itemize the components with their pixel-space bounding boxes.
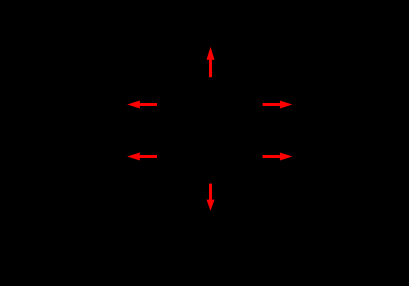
arrow left lower (pointing left) [127, 153, 157, 161]
arrow down (bottom, pointing down) [207, 184, 215, 211]
arrow left upper (pointing left) [127, 101, 157, 109]
hexagon ring (hidden black ink on black background) [166, 78, 256, 183]
arrow right lower (pointing right) [263, 153, 293, 161]
arrow up (top, pointing up) [207, 47, 215, 77]
arrow right upper (pointing right) [263, 101, 293, 109]
